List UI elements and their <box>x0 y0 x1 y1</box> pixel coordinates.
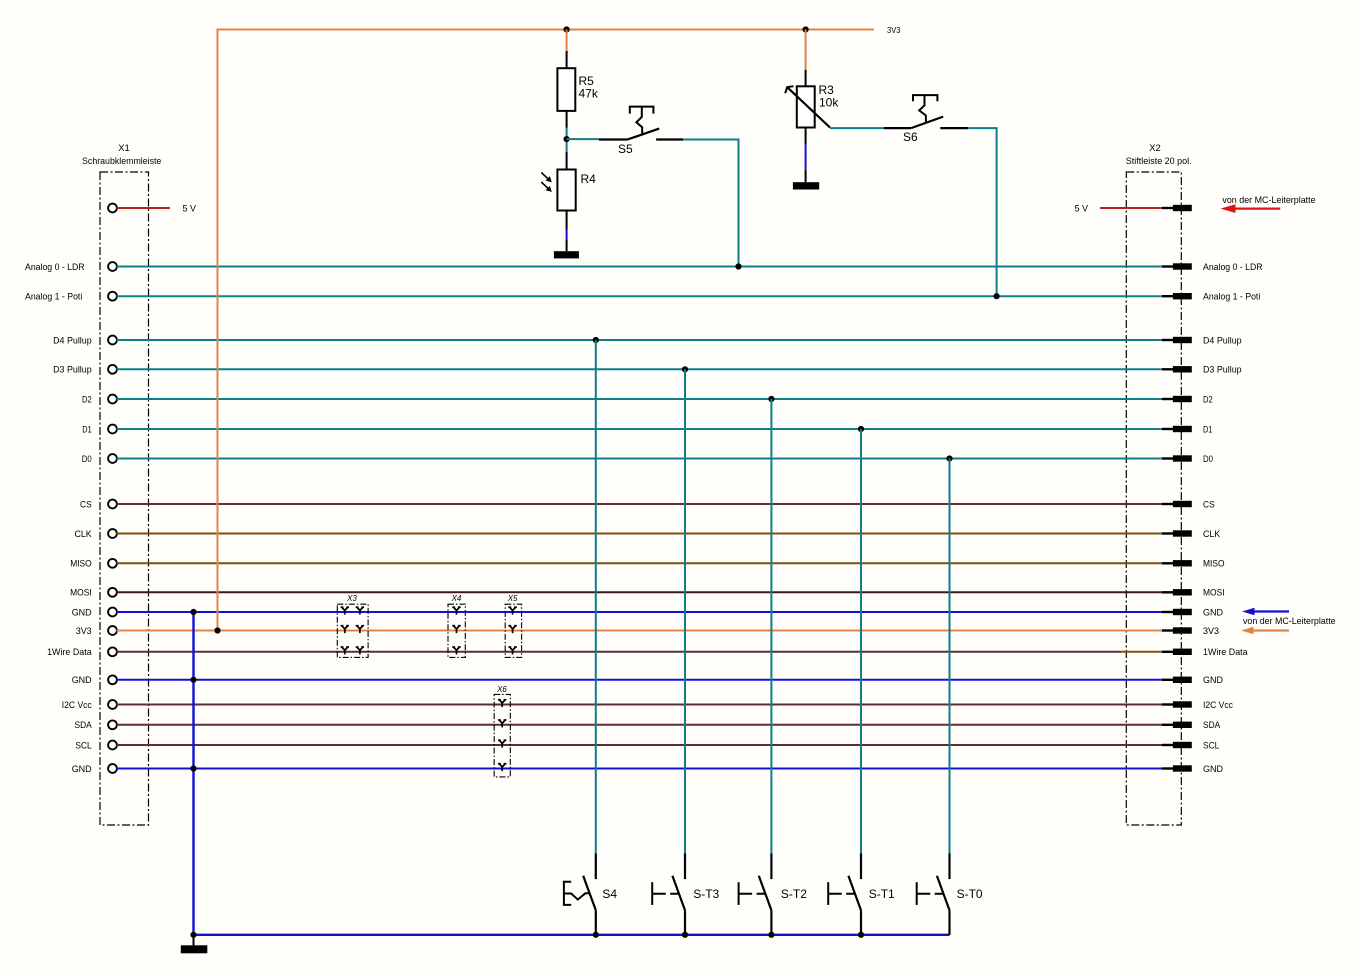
pin X2 CLK <box>1173 530 1192 536</box>
svg-text:GND: GND <box>1203 607 1223 618</box>
svg-text:SCL: SCL <box>75 740 91 751</box>
connector X1 Schraubklemmleiste <box>82 143 161 825</box>
wire R4 bottom pin <box>566 211 568 230</box>
wire net GND bottom horizontal <box>194 934 950 936</box>
ground symbol bottom-left <box>181 945 208 953</box>
pin X2 D3 Pullup <box>1173 366 1192 372</box>
ground symbol below R3 <box>793 182 819 189</box>
svg-text:MOSI: MOSI <box>1203 588 1225 599</box>
wire net CLK <box>117 533 1163 535</box>
pin X2 D0 <box>1173 455 1192 461</box>
pin X1 D2 <box>108 395 117 404</box>
svg-text:X2: X2 <box>1149 143 1161 154</box>
switch S6 <box>884 95 968 144</box>
wire ground stem bottom-left <box>193 935 195 946</box>
pin X2 GND <box>1173 677 1192 683</box>
wire net LDR-divider teal stub <box>566 128 568 153</box>
switch S4 <box>564 853 618 935</box>
pin X1 CLK <box>108 529 117 538</box>
wire R3 top stub (orange) <box>805 30 807 72</box>
pin X1 Analog 1 - Poti <box>108 292 117 301</box>
wire net D4 Pullup <box>117 339 1163 341</box>
svg-text:SDA: SDA <box>1203 720 1221 731</box>
connector X6 <box>494 685 510 777</box>
pin X1 D0 <box>108 454 117 463</box>
svg-text:D3 Pullup: D3 Pullup <box>1203 365 1242 376</box>
svg-text:Schraubklemmleiste: Schraubklemmleiste <box>82 156 161 167</box>
wire net GND <box>117 611 1163 613</box>
svg-text:1Wire Data: 1Wire Data <box>47 647 92 658</box>
wire CLK black pin stub <box>1162 532 1174 534</box>
switch S-T0 <box>917 853 983 935</box>
svg-text:3V3: 3V3 <box>1203 626 1219 637</box>
wire R4 top pin <box>566 152 568 170</box>
wire net 1Wire Data <box>117 651 1122 653</box>
wire net 3V3 vertical (x=217.5) <box>217 30 219 631</box>
wire net CS <box>117 503 1163 505</box>
wire net D2 <box>117 398 1163 400</box>
junction S-T1 / GND bus <box>858 932 864 938</box>
junction 3V3 rail / R3 <box>803 26 809 32</box>
pin X1 SCL <box>108 741 117 750</box>
connector X2 Stiftleiste 20 pol. <box>1126 143 1192 825</box>
svg-text:D1: D1 <box>82 424 91 435</box>
svg-text:von der MC-Leiterplatte: von der MC-Leiterplatte <box>1222 195 1315 206</box>
junction S4 / GND bus <box>593 932 599 938</box>
wire S-T3 vertical (teal) <box>684 369 686 853</box>
wire SDA black pin stub <box>1162 724 1174 726</box>
svg-text:X6: X6 <box>496 685 507 694</box>
svg-text:CS: CS <box>1203 499 1215 510</box>
svg-text:1Wire Data: 1Wire Data <box>1203 647 1248 658</box>
pin X1 D1 <box>108 425 117 434</box>
wire 1Wire Data black pin stub <box>1162 651 1174 653</box>
pin X1 GND <box>108 608 117 617</box>
pin X2 3V3 <box>1173 627 1192 633</box>
LDR R4 <box>541 170 596 211</box>
svg-text:CLK: CLK <box>1203 529 1221 540</box>
pin X5-1 <box>508 607 516 614</box>
arrow GND from MC board <box>1242 608 1289 616</box>
pin X1 D3 Pullup <box>108 365 117 374</box>
pin X1 GND <box>108 764 117 773</box>
wire R3 to ground <box>805 170 807 183</box>
wire R5 top stub (orange) <box>566 30 568 54</box>
wire Analog 0 - LDR black pin stub <box>1162 265 1174 267</box>
wire R3 top pin <box>805 70 807 86</box>
wire net SDA <box>117 724 1163 726</box>
junction S-T2 / GND bus <box>768 932 774 938</box>
pin X2 D4 Pullup <box>1173 337 1192 343</box>
wire GND black pin stub <box>1162 679 1174 681</box>
wire S5 right to Analog0 (teal) <box>683 139 739 141</box>
svg-text:I2C Vcc: I2C Vcc <box>1203 700 1233 711</box>
wire net D1 <box>117 428 1163 430</box>
connector X5 <box>505 594 521 657</box>
svg-text:Stiftleiste 20 pol.: Stiftleiste 20 pol. <box>1126 156 1192 167</box>
pin X2 5 V <box>1173 205 1192 211</box>
pin X2 D1 <box>1173 426 1192 432</box>
svg-text:S-T0: S-T0 <box>957 887 983 901</box>
svg-text:Analog 1 - Poti: Analog 1 - Poti <box>1203 292 1260 303</box>
svg-text:47k: 47k <box>579 87 599 101</box>
svg-text:I2C Vcc: I2C Vcc <box>62 700 92 711</box>
svg-text:SCL: SCL <box>1203 740 1219 751</box>
pin X6-2 <box>498 720 506 727</box>
svg-text:X3: X3 <box>346 594 357 603</box>
pin X1 MISO <box>108 559 117 568</box>
wire GND stub (blue) below R3 <box>805 144 807 170</box>
junction S6/Analog 1 <box>994 293 1000 299</box>
svg-text:S5: S5 <box>618 142 633 156</box>
wire net 3V3 <box>117 630 1163 632</box>
svg-text:D0: D0 <box>82 454 92 465</box>
wire S4 vertical (teal) <box>595 340 597 853</box>
wire net D3 Pullup <box>117 368 1163 370</box>
wire D3 Pullup black pin stub <box>1162 368 1174 370</box>
connector X4 <box>448 594 465 657</box>
svg-text:Analog 0 - LDR: Analog 0 - LDR <box>1203 262 1263 273</box>
pin X2 Analog 1 - Poti <box>1173 293 1192 299</box>
wire R4 to ground <box>566 240 568 252</box>
wire net 5V right stub <box>1100 207 1162 209</box>
junction S-T2 / net row <box>768 396 774 402</box>
wire CS black pin stub <box>1162 503 1174 505</box>
switch S-T2 <box>739 853 808 935</box>
pin X2 SDA <box>1173 722 1192 728</box>
svg-text:S4: S4 <box>602 887 617 901</box>
wire S6 left (teal) from R3 wiper <box>830 127 884 129</box>
junction 3V3 rail / R5 <box>564 26 570 32</box>
wire MOSI black pin stub <box>1162 591 1174 593</box>
pin X1 Analog 0 - LDR <box>108 262 117 271</box>
switch S-T1 <box>828 853 895 935</box>
switch S5 <box>599 107 683 156</box>
svg-text:X5: X5 <box>507 594 518 603</box>
junction S-T1 / net row <box>858 426 864 432</box>
junction S4 / net row <box>593 337 599 343</box>
svg-text:D2: D2 <box>82 394 92 405</box>
svg-text:D4 Pullup: D4 Pullup <box>1203 335 1242 346</box>
pin X2 CS <box>1173 501 1192 507</box>
svg-text:D1: D1 <box>1203 424 1212 435</box>
pin X4-2 <box>452 626 460 633</box>
wire SCL black pin stub <box>1162 744 1174 746</box>
wire R5 bottom pin <box>566 111 568 129</box>
wire S6 right to Analog1 (teal) <box>968 127 998 129</box>
svg-text:5 V: 5 V <box>1075 203 1089 214</box>
svg-text:SDA: SDA <box>75 720 93 731</box>
pin X2 MOSI <box>1173 589 1192 595</box>
arrow 5V from MC board <box>1221 204 1281 213</box>
resistor R5 <box>557 68 598 111</box>
pin X2 Analog 0 - LDR <box>1173 263 1192 269</box>
wire GND black pin stub <box>1162 767 1174 769</box>
wire D4 Pullup black pin stub <box>1162 339 1174 341</box>
svg-text:D4 Pullup: D4 Pullup <box>53 335 92 346</box>
wire net MOSI <box>117 591 1163 593</box>
junction S-T0 / net row <box>946 455 952 461</box>
wire D2 black pin stub <box>1162 398 1174 400</box>
wire S-T2 vertical (teal) <box>770 399 772 853</box>
svg-text:S-T1: S-T1 <box>869 887 895 901</box>
svg-text:CLK: CLK <box>75 529 93 540</box>
pin X2 1Wire Data <box>1173 649 1192 655</box>
junction 3V3 vertical/3V3 row <box>214 627 220 633</box>
wire net 3V3 top horizontal <box>217 29 875 31</box>
svg-text:GND: GND <box>1203 675 1223 686</box>
pin X6-4 <box>498 764 506 771</box>
pin X3-2 <box>356 607 364 614</box>
svg-text:3V3: 3V3 <box>76 626 92 637</box>
svg-text:D0: D0 <box>1203 454 1213 465</box>
wire 5V black pin stub <box>1162 207 1174 209</box>
junction S-T3 / net row <box>682 366 688 372</box>
pin X1 1Wire Data <box>108 647 117 656</box>
wire R5 top pin <box>566 51 568 68</box>
svg-text:S-T3: S-T3 <box>693 887 719 901</box>
pin X2 D2 <box>1173 396 1192 402</box>
pin X4-3 <box>452 647 460 654</box>
svg-text:5 V: 5 V <box>183 203 197 214</box>
wire net Analog 0 - LDR <box>117 266 1163 268</box>
pin X5-2 <box>508 626 516 633</box>
pin X3-1 <box>341 607 349 614</box>
svg-text:GND: GND <box>72 764 92 775</box>
connector X3 <box>337 594 368 657</box>
pin X2 GND <box>1173 765 1192 771</box>
pin X2 I2C Vcc <box>1173 701 1192 707</box>
wire net GND <box>117 679 1163 681</box>
wire net MISO <box>117 562 1163 564</box>
pin X1 I2C Vcc <box>108 700 117 709</box>
junction GND vertical / GND row 2 <box>190 677 196 683</box>
wire I2C Vcc black pin stub <box>1162 703 1174 705</box>
svg-text:R4: R4 <box>581 172 597 186</box>
junction GND vertical / GND row 3 <box>190 765 196 771</box>
pin X6-1 <box>498 700 506 707</box>
pin X6-3 <box>498 740 506 747</box>
wire S-T1 vertical (teal) <box>860 429 862 853</box>
wire net GND vertical (x=193.5) <box>192 612 194 936</box>
wire R3 bottom pin <box>805 128 807 145</box>
pin X1 D4 Pullup <box>108 336 117 345</box>
arrow 3V3 from MC board <box>1241 627 1289 635</box>
svg-text:10k: 10k <box>819 96 839 110</box>
svg-text:MISO: MISO <box>70 559 92 570</box>
wire net SCL <box>117 744 1163 746</box>
svg-text:von der MC-Leiterplatte: von der MC-Leiterplatte <box>1243 616 1336 627</box>
junction S5/Analog 0 <box>735 263 741 269</box>
pin X1 SDA <box>108 720 117 729</box>
pin X1 3V3 <box>108 626 117 635</box>
junction GND vertical / GND row 1 <box>190 609 196 615</box>
svg-text:D3 Pullup: D3 Pullup <box>53 365 92 376</box>
pin X3-4 <box>356 626 364 633</box>
pin X5-3 <box>508 647 516 654</box>
wire 3V3 black pin stub <box>1162 629 1174 631</box>
pin X1 MOSI <box>108 588 117 597</box>
pin X4-1 <box>452 607 460 614</box>
wire MISO black pin stub <box>1162 562 1174 564</box>
pin X3-5 <box>341 647 349 654</box>
svg-text:Analog 1 - Poti: Analog 1 - Poti <box>25 292 82 303</box>
junction R5/R4/S5 node <box>564 136 570 142</box>
wire net D0 <box>117 458 1163 460</box>
svg-text:GND: GND <box>72 675 92 686</box>
pin X1 GND <box>108 675 117 684</box>
svg-text:MOSI: MOSI <box>70 588 92 599</box>
wire GND stub (blue) below R4 <box>566 229 568 239</box>
svg-text:GND: GND <box>1203 764 1223 775</box>
pin X2 GND <box>1173 609 1192 615</box>
svg-text:X1: X1 <box>118 143 130 154</box>
svg-text:S-T2: S-T2 <box>781 887 807 901</box>
svg-text:GND: GND <box>72 607 92 618</box>
wire net Analog 1 - Poti <box>117 295 1163 297</box>
wire S5 left (teal) <box>567 138 599 140</box>
pin X2 SCL <box>1173 742 1192 748</box>
wire GND black pin stub <box>1162 611 1174 613</box>
svg-text:3V3: 3V3 <box>887 25 901 35</box>
pin X2 MISO <box>1173 560 1192 566</box>
wire net 1Wire Data brown segment <box>1121 651 1162 653</box>
wire S-T0 vertical (teal) <box>949 459 951 854</box>
junction GND corner / ground symbol <box>190 932 196 938</box>
svg-text:MISO: MISO <box>1203 559 1225 570</box>
wire net GND <box>117 768 1163 770</box>
svg-text:X4: X4 <box>451 594 462 603</box>
pin X1 5 V <box>108 204 117 213</box>
svg-text:D2: D2 <box>1203 394 1213 405</box>
pin X3-3 <box>341 626 349 633</box>
junction S-T3 / GND bus <box>682 932 688 938</box>
potentiometer R3 <box>785 83 839 128</box>
wire net 5V left stub <box>117 207 171 209</box>
switch S-T3 <box>652 853 719 935</box>
wire Analog 1 - Poti black pin stub <box>1162 295 1174 297</box>
svg-text:Analog 0 - LDR: Analog 0 - LDR <box>25 262 85 273</box>
svg-text:S6: S6 <box>903 130 918 144</box>
wire net I2C Vcc <box>117 704 1163 706</box>
wire D0 black pin stub <box>1162 457 1174 459</box>
wire D1 black pin stub <box>1162 428 1174 430</box>
svg-text:CS: CS <box>80 499 92 510</box>
pin X1 CS <box>108 500 117 509</box>
ground symbol below R4 <box>554 251 579 258</box>
pin X3-6 <box>356 647 364 654</box>
